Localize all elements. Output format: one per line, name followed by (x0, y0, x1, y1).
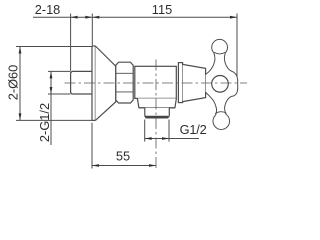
outlet boss band1 (137, 98, 176, 107)
handle hub circle (212, 76, 229, 93)
extension line x=92.3 (wall face, shared with 115) (91, 14, 93, 47)
dimension G1/2 line (145, 138, 199, 140)
dimension 115 line (92, 16, 237, 18)
extension line x=237 (handle tip) (236, 14, 238, 85)
extension line y=94 (48, 93, 71, 95)
valve body cylinder (135, 66, 177, 98)
svg-text:55: 55 (116, 149, 130, 164)
outlet nut band2 thick bottom edge (145, 116, 168, 118)
dimension G1/2 arrow right (162, 137, 169, 140)
dimension 2-18 arrow left (71, 16, 78, 19)
dimension 2-18 arrow right (85, 16, 92, 19)
extension line x=92 below plate (91, 123, 93, 169)
svg-text:115: 115 (152, 2, 172, 17)
dimension G1/2 arrow left (145, 137, 152, 140)
dimension 115 arrow right (230, 16, 237, 19)
wall plate left line (91, 46, 93, 120)
dimension 55 line (92, 165, 156, 167)
hex nut facet line top (116, 72, 133, 74)
stem frustum (183, 64, 206, 101)
hex nut facet line bottom (116, 91, 133, 93)
dimension 115 arrow left (92, 16, 99, 19)
dimension 2-G1/2 line (50, 71, 52, 145)
wall plate bottom edge (92, 119, 95, 121)
dimension 55 arrow right (149, 164, 156, 167)
extension line y=71.4 (48, 70, 71, 72)
outlet boss band1 bottom edge (139, 107, 175, 109)
extension line y=120.4 (16, 119, 92, 121)
extension line y=46.5 (16, 46, 92, 48)
extension line x=169 (168, 120, 170, 142)
hex nut outline (116, 62, 133, 103)
extension line x=70.6 (70, 14, 72, 71)
dimension 2-O60 line (19, 47, 21, 121)
extension line x=144.7 (144, 120, 146, 142)
centerline vertical (outlet axis) (155, 60, 157, 169)
inlet nipple (71, 71, 92, 94)
svg-text:G1/2: G1/2 (180, 122, 207, 137)
wall plate top edge (92, 45, 95, 47)
dimension 2-G1/2 arrow down (50, 87, 53, 94)
top ball cap arc (214, 52, 225, 54)
svg-text:2-18: 2-18 (35, 2, 61, 17)
svg-text:2-Ø60: 2-Ø60 (6, 65, 21, 101)
svg-text:2-G1/2: 2-G1/2 (37, 103, 52, 142)
dimension 55 arrow left (92, 164, 99, 167)
bottom ball cap arc (215, 112, 227, 114)
dimension 2-G1/2 arrow up (50, 71, 53, 78)
cross handle silhouette (206, 39, 238, 129)
escutcheon cone (95, 46, 115, 120)
dimension 2-O60 arrow down (19, 113, 22, 120)
wall plate right line (94, 46, 96, 120)
outlet nut band2 (145, 108, 170, 118)
bonnet collar (178, 63, 182, 103)
dimension 2-18 line (33, 16, 92, 18)
dimension 2-O60 arrow up (19, 47, 22, 54)
centerline horizontal (valve axis) (65, 82, 248, 84)
